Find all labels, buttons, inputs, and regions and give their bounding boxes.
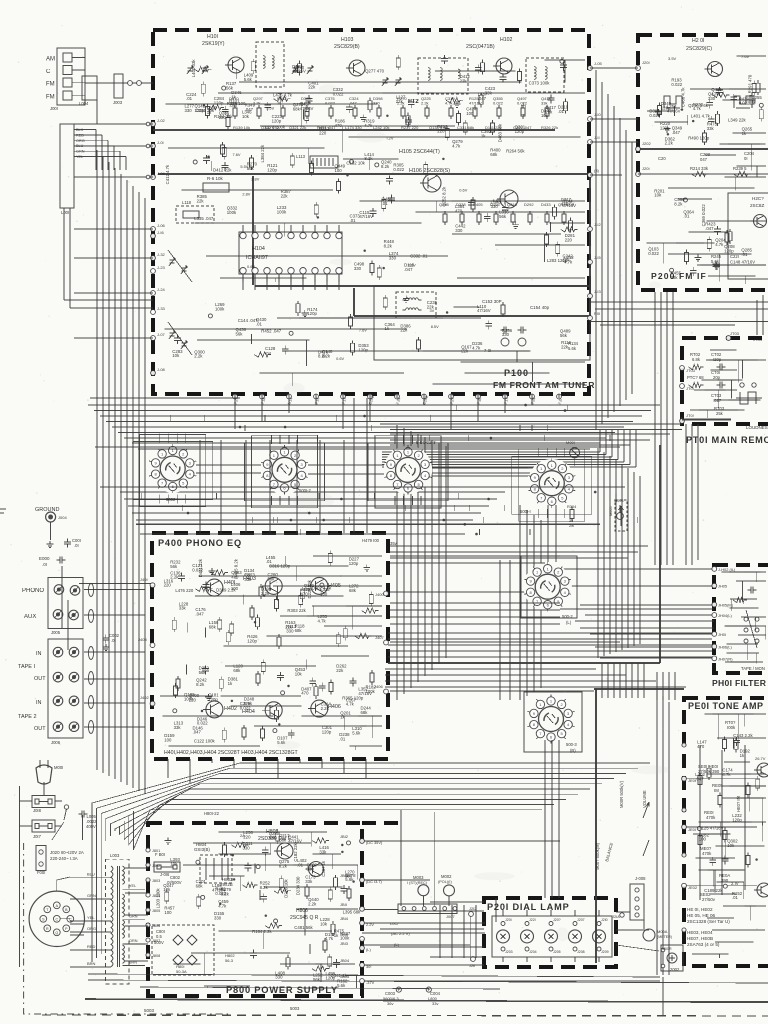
- svg-text:R291 470: R291 470: [748, 74, 753, 93]
- svg-text:120p: 120p: [272, 119, 282, 124]
- svg-text:C182 22k: C182 22k: [293, 842, 298, 861]
- svg-text:L400 33k: L400 33k: [191, 59, 196, 78]
- svg-text:330: 330: [354, 266, 362, 271]
- svg-text:JBI2: JBI2: [340, 834, 349, 839]
- svg-text:J-I6: J-I6: [157, 230, 164, 235]
- svg-text:470k: 470k: [702, 851, 712, 856]
- svg-text:J2II: J2II: [469, 963, 475, 968]
- svg-text:BLK: BLK: [76, 128, 84, 132]
- svg-text:PE0I TONE AMP: PE0I TONE AMP: [688, 701, 764, 711]
- svg-text:J-05: J-05: [594, 61, 603, 66]
- svg-text:047: 047: [700, 157, 708, 162]
- svg-text:FM FRONT AM TUNER: FM FRONT AM TUNER: [493, 380, 595, 390]
- svg-text:Q218: Q218: [507, 202, 518, 207]
- svg-text:C466 4.7k: C466 4.7k: [681, 87, 686, 107]
- svg-text:L113: L113: [296, 154, 306, 159]
- svg-text:0.022: 0.022: [649, 113, 660, 118]
- svg-text:PHONO: PHONO: [22, 588, 44, 594]
- svg-text:J003: J003: [113, 100, 123, 105]
- svg-text:22k: 22k: [197, 199, 205, 204]
- svg-text:R365 120p: R365 120p: [342, 695, 364, 700]
- svg-text:330: 330: [455, 228, 463, 233]
- svg-text:0.022: 0.022: [215, 891, 226, 896]
- svg-text:C: C: [55, 917, 58, 921]
- svg-text:J203: J203: [505, 950, 513, 954]
- svg-text:C122 100k: C122 100k: [194, 739, 216, 744]
- svg-text:100: 100: [164, 737, 172, 742]
- svg-text:2.2k: 2.2k: [308, 901, 317, 906]
- svg-text:5.6k: 5.6k: [337, 983, 346, 988]
- svg-text:22k: 22k: [561, 344, 569, 349]
- svg-text:68k: 68k: [490, 152, 498, 157]
- svg-text:56k: 56k: [560, 333, 568, 338]
- svg-text:2SK19(Y): 2SK19(Y): [202, 41, 225, 47]
- svg-text:4.7k: 4.7k: [472, 346, 481, 351]
- svg-text:J0I7: J0I7: [33, 834, 42, 839]
- svg-text:2.2k: 2.2k: [253, 101, 261, 106]
- svg-text:F00I: F00I: [37, 870, 45, 875]
- svg-text:(METER): (METER): [657, 935, 672, 939]
- svg-text:330: 330: [185, 108, 193, 113]
- svg-text:J00I: J00I: [50, 106, 58, 111]
- svg-text:56-3: 56-3: [225, 958, 234, 963]
- svg-text:L335 .047: L335 .047: [194, 216, 214, 221]
- svg-text:.01: .01: [683, 214, 690, 219]
- svg-text:10k: 10k: [172, 353, 180, 358]
- svg-text:470: 470: [335, 123, 343, 128]
- svg-text:L00I: L00I: [61, 210, 69, 215]
- svg-text:M00? 500k(M): M00? 500k(M): [595, 842, 600, 870]
- svg-text:M00R 500k(V): M00R 500k(V): [619, 780, 624, 808]
- svg-text:J22I: J22I: [529, 918, 536, 922]
- svg-text:OUT: OUT: [34, 726, 46, 732]
- svg-text:5 SOC2-3: 5 SOC2-3: [416, 440, 436, 445]
- svg-text:P20I DIAL LAMP: P20I DIAL LAMP: [487, 902, 570, 912]
- svg-text:500-3: 500-3: [566, 742, 577, 747]
- svg-text:47/16V: 47/16V: [469, 101, 482, 106]
- svg-text:D483 68k: D483 68k: [498, 123, 503, 142]
- svg-text:56k: 56k: [170, 564, 178, 569]
- svg-text:L0C/: L0C/: [390, 921, 399, 926]
- svg-text:Q277 470: Q277 470: [365, 68, 384, 73]
- svg-text:27/50v: 27/50v: [702, 897, 716, 902]
- svg-text:120p: 120p: [326, 975, 336, 980]
- svg-text:H2 0I: H2 0I: [692, 38, 704, 44]
- svg-text:22k: 22k: [336, 668, 344, 673]
- svg-text:C22I: C22I: [730, 254, 739, 259]
- svg-text:4.7k: 4.7k: [445, 101, 453, 106]
- svg-text:8.2k: 8.2k: [279, 863, 288, 868]
- svg-text:56k: 56k: [313, 977, 321, 982]
- svg-text:68k: 68k: [361, 710, 369, 715]
- svg-text:L395 68k: L395 68k: [343, 910, 362, 915]
- svg-text:C143 2.2k: C143 2.2k: [733, 733, 753, 738]
- svg-text:H80I-22: H80I-22: [204, 811, 220, 816]
- svg-text:J204: J204: [529, 950, 537, 954]
- svg-text:JH05: JH05: [718, 584, 727, 589]
- svg-text:500I-I: 500I-I: [520, 509, 531, 514]
- svg-text:100k: 100k: [227, 210, 237, 215]
- svg-text:.0I: .0I: [74, 543, 79, 548]
- svg-text:J20I: J20I: [505, 918, 512, 922]
- svg-text:120p: 120p: [349, 561, 359, 566]
- svg-text:22k: 22k: [400, 328, 408, 333]
- svg-text:68k: 68k: [304, 587, 312, 592]
- svg-text:I.2V: I.2V: [387, 135, 394, 140]
- svg-text:100: 100: [699, 837, 707, 842]
- svg-text:AM: AM: [46, 57, 55, 63]
- svg-text:33k: 33k: [305, 879, 313, 884]
- svg-text:R405: R405: [473, 202, 483, 207]
- svg-text:(L): (L): [394, 942, 400, 947]
- svg-text:330: 330: [502, 332, 510, 337]
- svg-text:GRN: GRN: [87, 893, 96, 898]
- svg-text:TAPE I: TAPE I: [18, 664, 35, 670]
- svg-text:10k: 10k: [727, 843, 735, 848]
- svg-text:50-3A: 50-3A: [176, 969, 187, 974]
- svg-text:2SC829(C): 2SC829(C): [686, 46, 712, 52]
- svg-text:0.022: 0.022: [192, 567, 203, 572]
- svg-text:4.7k: 4.7k: [722, 772, 731, 777]
- svg-text:J-II: J-II: [594, 135, 600, 140]
- svg-text:5.6k: 5.6k: [352, 730, 361, 735]
- svg-text:D412 22k: D412 22k: [213, 168, 232, 173]
- svg-text:D389 2.2k: D389 2.2k: [216, 588, 236, 593]
- svg-text:FM: FM: [46, 82, 55, 88]
- svg-text:0.6V: 0.6V: [459, 188, 467, 193]
- svg-text:C481 56k: C481 56k: [294, 925, 313, 930]
- svg-text:56k: 56k: [268, 576, 276, 581]
- svg-text:J403: J403: [138, 637, 147, 642]
- svg-text:I00k: I00k: [727, 725, 736, 730]
- svg-text:4.7k: 4.7k: [452, 143, 461, 148]
- svg-text:J205: J205: [553, 950, 561, 954]
- svg-text:(L): (L): [566, 620, 572, 625]
- svg-text:7.6V: 7.6V: [359, 328, 367, 333]
- svg-text:J2I0: J2I0: [601, 918, 608, 922]
- svg-text:100: 100: [335, 168, 343, 173]
- svg-text:H10I: H10I: [207, 34, 218, 40]
- svg-text:0.022: 0.022: [648, 251, 659, 256]
- svg-text:2SC1328 (Ser Tar U): 2SC1328 (Ser Tar U): [687, 919, 730, 924]
- svg-text:R-6 10k: R-6 10k: [207, 176, 224, 181]
- svg-text:Q140 5.6k: Q140 5.6k: [688, 103, 709, 108]
- svg-text:J-02: J-02: [157, 118, 166, 123]
- svg-text:IN: IN: [36, 700, 42, 706]
- svg-text:R490 120p: R490 120p: [688, 136, 710, 141]
- svg-text:R264 56k: R264 56k: [506, 149, 525, 154]
- svg-text:J-I5: J-I5: [594, 255, 601, 260]
- svg-text:(L): (L): [366, 947, 371, 952]
- svg-text:L401 4.7k: L401 4.7k: [691, 114, 711, 119]
- svg-text:HE 0I, HE02: HE 0I, HE02: [687, 907, 713, 912]
- svg-text:J209: J209: [601, 950, 609, 954]
- svg-text:FM: FM: [46, 94, 55, 100]
- svg-text:BRN: BRN: [87, 961, 96, 966]
- svg-text:120p: 120p: [322, 729, 332, 734]
- svg-text:L384 22k: L384 22k: [260, 144, 265, 163]
- svg-text:2SC945 Q R: 2SC945 Q R: [290, 915, 319, 921]
- svg-text:J803: J803: [152, 879, 160, 883]
- svg-text:.01: .01: [256, 322, 263, 327]
- svg-text:J-07: J-07: [157, 332, 166, 337]
- svg-text:470: 470: [697, 744, 705, 749]
- svg-text:H106 2SC828(S): H106 2SC828(S): [409, 168, 450, 174]
- svg-text:0.6V: 0.6V: [247, 264, 255, 269]
- svg-text:26.7V: 26.7V: [755, 756, 766, 761]
- svg-text:ORN: ORN: [129, 939, 138, 943]
- svg-text:C: C: [46, 69, 51, 75]
- svg-text:7.6V: 7.6V: [233, 152, 241, 157]
- svg-text:68k: 68k: [269, 835, 277, 840]
- svg-text:ORG: ORG: [76, 139, 85, 143]
- svg-text:J-H02 (IL): J-H02 (IL): [718, 567, 736, 572]
- svg-text:GROUND: GROUND: [35, 507, 59, 513]
- svg-text:J808: J808: [152, 954, 160, 958]
- svg-text:D292: D292: [524, 202, 534, 207]
- svg-text:D106: D106: [490, 202, 500, 207]
- svg-text:.047: .047: [195, 611, 204, 616]
- svg-text:YEL: YEL: [87, 915, 95, 920]
- svg-text:TAPE 2: TAPE 2: [18, 714, 37, 720]
- svg-text:M005: M005: [609, 507, 613, 517]
- svg-text:2.8V: 2.8V: [251, 177, 259, 182]
- svg-text:2.2k: 2.2k: [261, 591, 270, 596]
- svg-text:.0I: .0I: [42, 562, 47, 567]
- svg-text:I (ST)(REC): I (ST)(REC): [407, 881, 428, 885]
- svg-text:(DC I3.7): (DC I3.7): [366, 879, 382, 884]
- svg-text:H104: H104: [252, 246, 265, 252]
- svg-text:.01: .01: [339, 737, 346, 742]
- svg-text:33k: 33k: [244, 577, 252, 582]
- svg-text:ORG: ORG: [87, 926, 96, 931]
- svg-text:J-I0: J-I0: [594, 112, 601, 117]
- svg-text:8.2k: 8.2k: [384, 243, 393, 248]
- svg-text:120p: 120p: [724, 248, 734, 253]
- svg-text:5003: 5003: [290, 1006, 300, 1011]
- svg-text:D234 330: D234 330: [296, 876, 301, 895]
- svg-text:8.2k: 8.2k: [196, 682, 205, 687]
- svg-text:J400: J400: [375, 592, 384, 597]
- svg-text:C412 4.7k: C412 4.7k: [165, 164, 170, 184]
- svg-text:5.6k: 5.6k: [244, 701, 253, 706]
- svg-text:20p: 20p: [713, 375, 721, 380]
- svg-text:120p: 120p: [195, 108, 205, 113]
- svg-text:68k: 68k: [196, 883, 204, 888]
- svg-text:100: 100: [164, 910, 172, 915]
- svg-text:4.7k: 4.7k: [564, 260, 573, 265]
- svg-text:H479 I00: H479 I00: [362, 538, 380, 543]
- svg-text:22k: 22k: [281, 194, 289, 199]
- svg-text:220: 220: [164, 583, 172, 588]
- svg-text:5.6k: 5.6k: [244, 77, 253, 82]
- svg-text:M00I: M00I: [54, 765, 63, 770]
- svg-text:J208: J208: [577, 950, 585, 954]
- svg-text:0I: 0I: [744, 156, 748, 161]
- svg-text:120p: 120p: [267, 168, 277, 173]
- svg-text:JBI4: JBI4: [340, 916, 349, 921]
- svg-text:C373 100k: C373 100k: [529, 80, 551, 85]
- svg-text:2SC(0471B): 2SC(0471B): [466, 44, 495, 50]
- svg-text:HE03, HE04: HE03, HE04: [687, 930, 713, 935]
- svg-text:10k: 10k: [163, 887, 171, 892]
- svg-text:5002-I: 5002-I: [166, 497, 178, 502]
- svg-text:PH0I FILTER: PH0I FILTER: [712, 678, 767, 688]
- svg-text:120p: 120p: [358, 347, 368, 352]
- svg-text:R164 2.2k: R164 2.2k: [252, 929, 272, 934]
- svg-text:470: 470: [301, 691, 309, 696]
- svg-text:L476 220: L476 220: [175, 588, 194, 593]
- svg-text:3.5V: 3.5V: [668, 56, 677, 61]
- svg-text:35v: 35v: [390, 541, 398, 546]
- svg-text:J020 II0~I20V 2A: J020 II0~I20V 2A: [50, 850, 84, 855]
- svg-text:D338: D338: [456, 202, 466, 207]
- svg-text:PTC? 68: PTC? 68: [687, 375, 704, 380]
- svg-text:.01: .01: [186, 96, 193, 101]
- svg-text:J20?: J20?: [553, 918, 561, 922]
- svg-text:AUX: AUX: [24, 614, 36, 620]
- svg-text:C152 10k: C152 10k: [346, 161, 365, 166]
- svg-text:5.6k: 5.6k: [568, 346, 577, 351]
- svg-text:BLU: BLU: [87, 872, 95, 877]
- svg-text:YEL: YEL: [129, 884, 136, 888]
- svg-text:OUT: OUT: [34, 676, 46, 682]
- svg-text:J2IA: J2IA: [612, 914, 620, 919]
- svg-text:J-24: J-24: [157, 287, 166, 292]
- svg-text:J-32: J-32: [157, 252, 166, 257]
- svg-text:JT03: JT03: [730, 331, 740, 336]
- svg-text:0.022: 0.022: [493, 101, 504, 106]
- svg-text:4.7k: 4.7k: [325, 936, 334, 941]
- svg-text:JH0I: JH0I: [718, 632, 726, 637]
- svg-text:8.5V: 8.5V: [431, 324, 439, 329]
- svg-text:M00A: M00A: [657, 929, 668, 934]
- svg-text:J0I8: J0I8: [33, 808, 42, 813]
- svg-text:8.2k: 8.2k: [260, 885, 269, 890]
- svg-text:HE07, HE0B: HE07, HE0B: [687, 936, 713, 941]
- svg-text:4.7k: 4.7k: [318, 618, 327, 623]
- svg-text:J807: J807: [152, 939, 160, 943]
- svg-text:2.2k: 2.2k: [397, 101, 405, 106]
- svg-text:7-0I: 7-0I: [484, 348, 491, 353]
- svg-text:100k: 100k: [366, 689, 376, 694]
- svg-text:400V: 400V: [86, 824, 96, 829]
- svg-text:Q: Q: [55, 931, 58, 935]
- svg-text:LOUDNESS: LOUDNESS: [746, 425, 768, 430]
- svg-text:J005: J005: [51, 630, 61, 635]
- svg-text:33v: 33v: [432, 1001, 438, 1006]
- svg-text:4.7k: 4.7k: [364, 123, 373, 128]
- svg-text:.01: .01: [350, 218, 357, 223]
- svg-text:J805: J805: [152, 909, 160, 913]
- svg-text:22k: 22k: [308, 85, 316, 90]
- svg-text:JBII: JBII: [340, 902, 347, 907]
- svg-text:.047: .047: [404, 267, 413, 272]
- svg-text:R405 8.2k: R405 8.2k: [234, 558, 239, 578]
- svg-text:H105 2SC644(T): H105 2SC644(T): [399, 149, 440, 155]
- svg-text:C20: C20: [658, 156, 666, 161]
- svg-text:0.022: 0.022: [393, 167, 404, 172]
- svg-text:R303 22k: R303 22k: [287, 608, 306, 613]
- svg-text:YEL: YEL: [76, 155, 83, 159]
- svg-text:220: 220: [285, 624, 293, 629]
- svg-text:Q365: Q365: [439, 202, 450, 207]
- svg-text:56k: 56k: [499, 214, 507, 219]
- svg-text:L349 22k: L349 22k: [728, 117, 747, 122]
- svg-text:4.7k: 4.7k: [218, 904, 227, 909]
- svg-text:H40I,H402,H403,H404 2SC928T H: H40I,H402,H403,H404 2SC928T H403,H404 2S…: [164, 750, 299, 756]
- svg-text:33k: 33k: [174, 725, 182, 730]
- svg-text:M003: M003: [413, 875, 424, 880]
- svg-text:(AC 2.2 V): (AC 2.2 V): [391, 931, 410, 936]
- svg-text:33k: 33k: [179, 606, 187, 611]
- svg-text:68k: 68k: [209, 625, 217, 630]
- svg-text:47/16V: 47/16V: [477, 308, 491, 313]
- svg-text:10k: 10k: [295, 671, 303, 676]
- svg-text:470k: 470k: [706, 815, 716, 820]
- svg-text:220: 220: [243, 835, 251, 840]
- svg-text:HE 05, HE 06: HE 05, HE 06: [687, 913, 716, 918]
- svg-text:H402: H402: [224, 706, 237, 712]
- svg-text:J006: J006: [51, 740, 61, 745]
- svg-text:R139 10k: R139 10k: [233, 125, 250, 130]
- svg-text:C154 40p: C154 40p: [530, 305, 550, 310]
- svg-text:120p: 120p: [247, 639, 257, 644]
- svg-text:2.2k: 2.2k: [194, 354, 203, 359]
- svg-text:J-I2: J-I2: [594, 222, 601, 227]
- svg-text:R214 33k: R214 33k: [690, 166, 709, 171]
- svg-text:68k: 68k: [279, 838, 287, 843]
- svg-text:J207: J207: [577, 918, 585, 922]
- svg-text:.047: .047: [193, 730, 202, 735]
- svg-text:.047: .047: [705, 226, 714, 231]
- svg-text:5.6k: 5.6k: [711, 259, 720, 264]
- svg-text:R164 33k: R164 33k: [214, 114, 233, 119]
- svg-text:J-23: J-23: [157, 265, 166, 270]
- svg-text:330: 330: [243, 846, 251, 851]
- svg-text:10k: 10k: [320, 921, 328, 926]
- svg-text:56k: 56k: [199, 670, 207, 675]
- svg-text:RED: RED: [76, 133, 84, 137]
- svg-text:120p: 120p: [307, 311, 317, 316]
- svg-text:10k: 10k: [170, 861, 178, 866]
- svg-text:22k: 22k: [244, 572, 252, 577]
- svg-text:30!: 30!: [366, 964, 371, 969]
- svg-text:120p: 120p: [214, 101, 224, 106]
- svg-text:H2C?: H2C?: [752, 196, 764, 201]
- svg-text:.01: .01: [382, 201, 389, 206]
- svg-text:0.022: 0.022: [325, 101, 336, 106]
- svg-text:33k: 33k: [707, 126, 715, 131]
- svg-text:M00I: M00I: [566, 440, 575, 445]
- svg-text:68k: 68k: [293, 106, 301, 111]
- svg-text:C303 .047: C303 .047: [513, 125, 532, 130]
- svg-text:5003: 5003: [144, 1008, 155, 1013]
- svg-text:2.2k: 2.2k: [170, 575, 179, 580]
- svg-text:2.2k: 2.2k: [421, 101, 429, 106]
- svg-text:10k: 10k: [654, 193, 662, 198]
- svg-text:JT04: JT04: [753, 337, 763, 342]
- svg-text:TAPE / MON: TAPE / MON: [741, 666, 765, 671]
- svg-text:68k: 68k: [295, 628, 303, 633]
- svg-text:100k: 100k: [340, 935, 350, 940]
- svg-text:2SC8Z: 2SC8Z: [750, 203, 764, 208]
- svg-text:.01: .01: [732, 895, 739, 900]
- svg-text:(3): (3): [594, 168, 600, 173]
- svg-text:4.7k: 4.7k: [711, 92, 720, 97]
- svg-text:L118: L118: [182, 200, 192, 205]
- svg-text:R304: R304: [567, 504, 577, 509]
